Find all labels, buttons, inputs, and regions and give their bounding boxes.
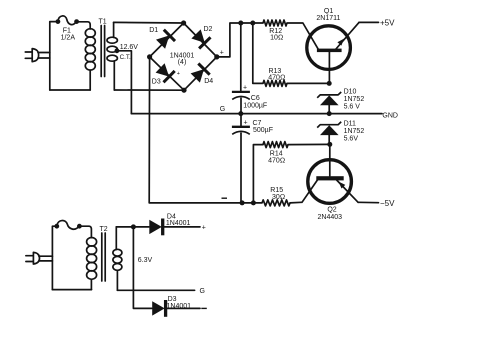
transformer T1 core xyxy=(101,26,104,77)
capacitor C7 xyxy=(232,114,273,203)
ground rail G xyxy=(131,113,382,115)
node bridge top xyxy=(181,20,186,25)
wire bridge + output to top rail xyxy=(217,23,263,57)
transistor Q2 xyxy=(302,144,358,203)
label D10 1N752 5.6V xyxy=(344,89,365,111)
wire Q2 emitter to -5V xyxy=(358,201,378,203)
diode D4 xyxy=(191,64,214,85)
fuse F2 xyxy=(54,221,81,230)
transformer T2 primary winding xyxy=(87,238,97,290)
wire center tap to ground rail xyxy=(117,51,131,114)
svg-text:D3: D3 xyxy=(152,79,161,86)
wire T1 secondary top to bridge xyxy=(114,21,184,24)
diode D2 xyxy=(191,26,212,48)
svg-text:5.6V: 5.6V xyxy=(344,135,359,142)
node GND xyxy=(327,111,332,116)
svg-text:1N752: 1N752 xyxy=(344,128,365,135)
wire fuse F2 to T2 primary xyxy=(79,226,91,238)
wire bridge diamond sides xyxy=(150,23,217,90)
diode D4 (1N4001) xyxy=(149,219,200,236)
svg-text:T2: T2 xyxy=(100,226,108,233)
wire R14 to node Y xyxy=(288,143,330,145)
wire T2 secondary bottom to G xyxy=(117,289,194,291)
transistor Q1 xyxy=(307,22,359,83)
svg-text:500µF: 500µF xyxy=(253,127,273,134)
svg-text:2N4403: 2N4403 xyxy=(318,214,343,221)
fuse F1 xyxy=(56,16,80,42)
label D4 1N4001 xyxy=(166,213,191,227)
wire R13 to node X xyxy=(287,82,329,84)
svg-text:C.T.: C.T. xyxy=(120,54,131,61)
wire T2 secondary top to D4 xyxy=(116,226,149,228)
svg-text:6.3V: 6.3V xyxy=(138,257,153,264)
svg-text:F1: F1 xyxy=(63,27,71,34)
label D11 1N752 5.6V xyxy=(344,121,365,143)
wire primary loop left/top xyxy=(50,22,58,90)
wire R12 to Q1 base xyxy=(287,23,318,49)
wire T1 secondary bottom to bridge xyxy=(114,89,184,91)
center tap node xyxy=(115,48,120,53)
svg-text:D10: D10 xyxy=(344,89,357,96)
node bridge right xyxy=(214,54,219,59)
wire R13 branch vertical xyxy=(253,23,263,83)
svg-text:1/2A: 1/2A xyxy=(61,35,76,42)
node bridge left xyxy=(147,54,152,59)
svg-text:GND: GND xyxy=(382,112,398,119)
svg-text:1N752: 1N752 xyxy=(344,96,365,103)
wire C6 branch vertical xyxy=(240,23,242,91)
diode D1 xyxy=(149,27,175,49)
resistor R12 xyxy=(263,20,287,42)
svg-text:D2: D2 xyxy=(204,26,213,33)
svg-text:2N1711: 2N1711 xyxy=(316,15,340,22)
wire junction down to D3 xyxy=(133,227,151,309)
node bottom rail / R14 branch xyxy=(251,200,256,205)
node Y (D11 / R14 / Q2) xyxy=(327,142,332,147)
AC plug P1 xyxy=(25,49,38,62)
wire bridge minus to bottom rail xyxy=(149,57,262,203)
node X (Q1 collector / R13 / D10) xyxy=(327,81,332,86)
svg-text:C6: C6 xyxy=(251,95,260,102)
svg-text:+5V: +5V xyxy=(380,19,395,28)
label minus output xyxy=(201,307,207,309)
svg-text:1N4001: 1N4001 xyxy=(167,303,192,310)
resistor R13 xyxy=(263,68,287,86)
svg-text:+: + xyxy=(220,50,224,57)
label 1N4001 (4) xyxy=(170,52,195,66)
svg-text:D1: D1 xyxy=(149,27,158,34)
AC plug P2 xyxy=(26,252,40,264)
svg-text:470Ω: 470Ω xyxy=(268,75,285,82)
diode D10 zener xyxy=(317,92,341,114)
svg-text:+: + xyxy=(202,225,206,232)
svg-text:+: + xyxy=(177,71,180,77)
node bottom rail / C7 xyxy=(240,200,245,205)
svg-text:5.6 V: 5.6 V xyxy=(344,103,361,110)
wire plug P2 to primary loop xyxy=(39,256,52,261)
transformer T1 secondary winding xyxy=(107,22,117,90)
transformer T1 primary winding xyxy=(85,29,95,90)
diode D11 zener xyxy=(317,122,341,145)
label minus rail xyxy=(222,197,228,199)
wire T2 primary loop bottom xyxy=(52,289,91,291)
svg-text:−5V: −5V xyxy=(380,199,395,208)
transformer T2 secondary winding xyxy=(113,227,122,290)
svg-text:470Ω: 470Ω xyxy=(268,157,285,164)
wire Q1 emitter to +5V xyxy=(359,21,379,23)
label Q2 xyxy=(318,206,343,221)
transformer T2 core xyxy=(102,233,105,281)
wire T2 primary loop left/top xyxy=(52,226,56,289)
svg-text:+: + xyxy=(244,120,248,127)
svg-text:Q2: Q2 xyxy=(327,206,336,213)
svg-text:G: G xyxy=(220,106,225,113)
svg-text:(4): (4) xyxy=(178,59,187,66)
svg-text:30Ω: 30Ω xyxy=(272,194,285,201)
wire R15 to Q2 collector xyxy=(290,201,302,204)
diode D3 (1N4001) xyxy=(152,300,200,317)
resistor R15 xyxy=(262,187,290,206)
svg-text:C7: C7 xyxy=(253,120,262,127)
wire R14 branch vertical xyxy=(253,145,263,203)
resistor R14 xyxy=(263,142,288,165)
wire primary loop bottom xyxy=(50,89,90,91)
svg-text:D11: D11 xyxy=(344,121,356,128)
label D3 1N4001 xyxy=(167,296,192,310)
label Q1 xyxy=(316,8,340,22)
wire plug P1 to primary loop xyxy=(38,53,50,59)
node G rail / C6 xyxy=(238,111,243,116)
svg-text:1N4001: 1N4001 xyxy=(166,220,191,227)
svg-text:G: G xyxy=(200,288,205,295)
svg-text:T1: T1 xyxy=(99,18,107,25)
svg-text:D4: D4 xyxy=(204,78,213,85)
node T2 secondary top junction xyxy=(131,224,136,229)
node top rail / R13 branch xyxy=(250,21,255,26)
capacitor C6 xyxy=(232,85,267,114)
node top rail / C6 branch xyxy=(238,21,243,26)
svg-text:1000µF: 1000µF xyxy=(243,102,267,109)
svg-text:+: + xyxy=(243,85,247,92)
wire fuse to T1 primary xyxy=(77,22,91,29)
svg-text:10Ω: 10Ω xyxy=(270,35,283,42)
node bridge bottom xyxy=(181,88,186,93)
diode D3 xyxy=(152,63,175,85)
